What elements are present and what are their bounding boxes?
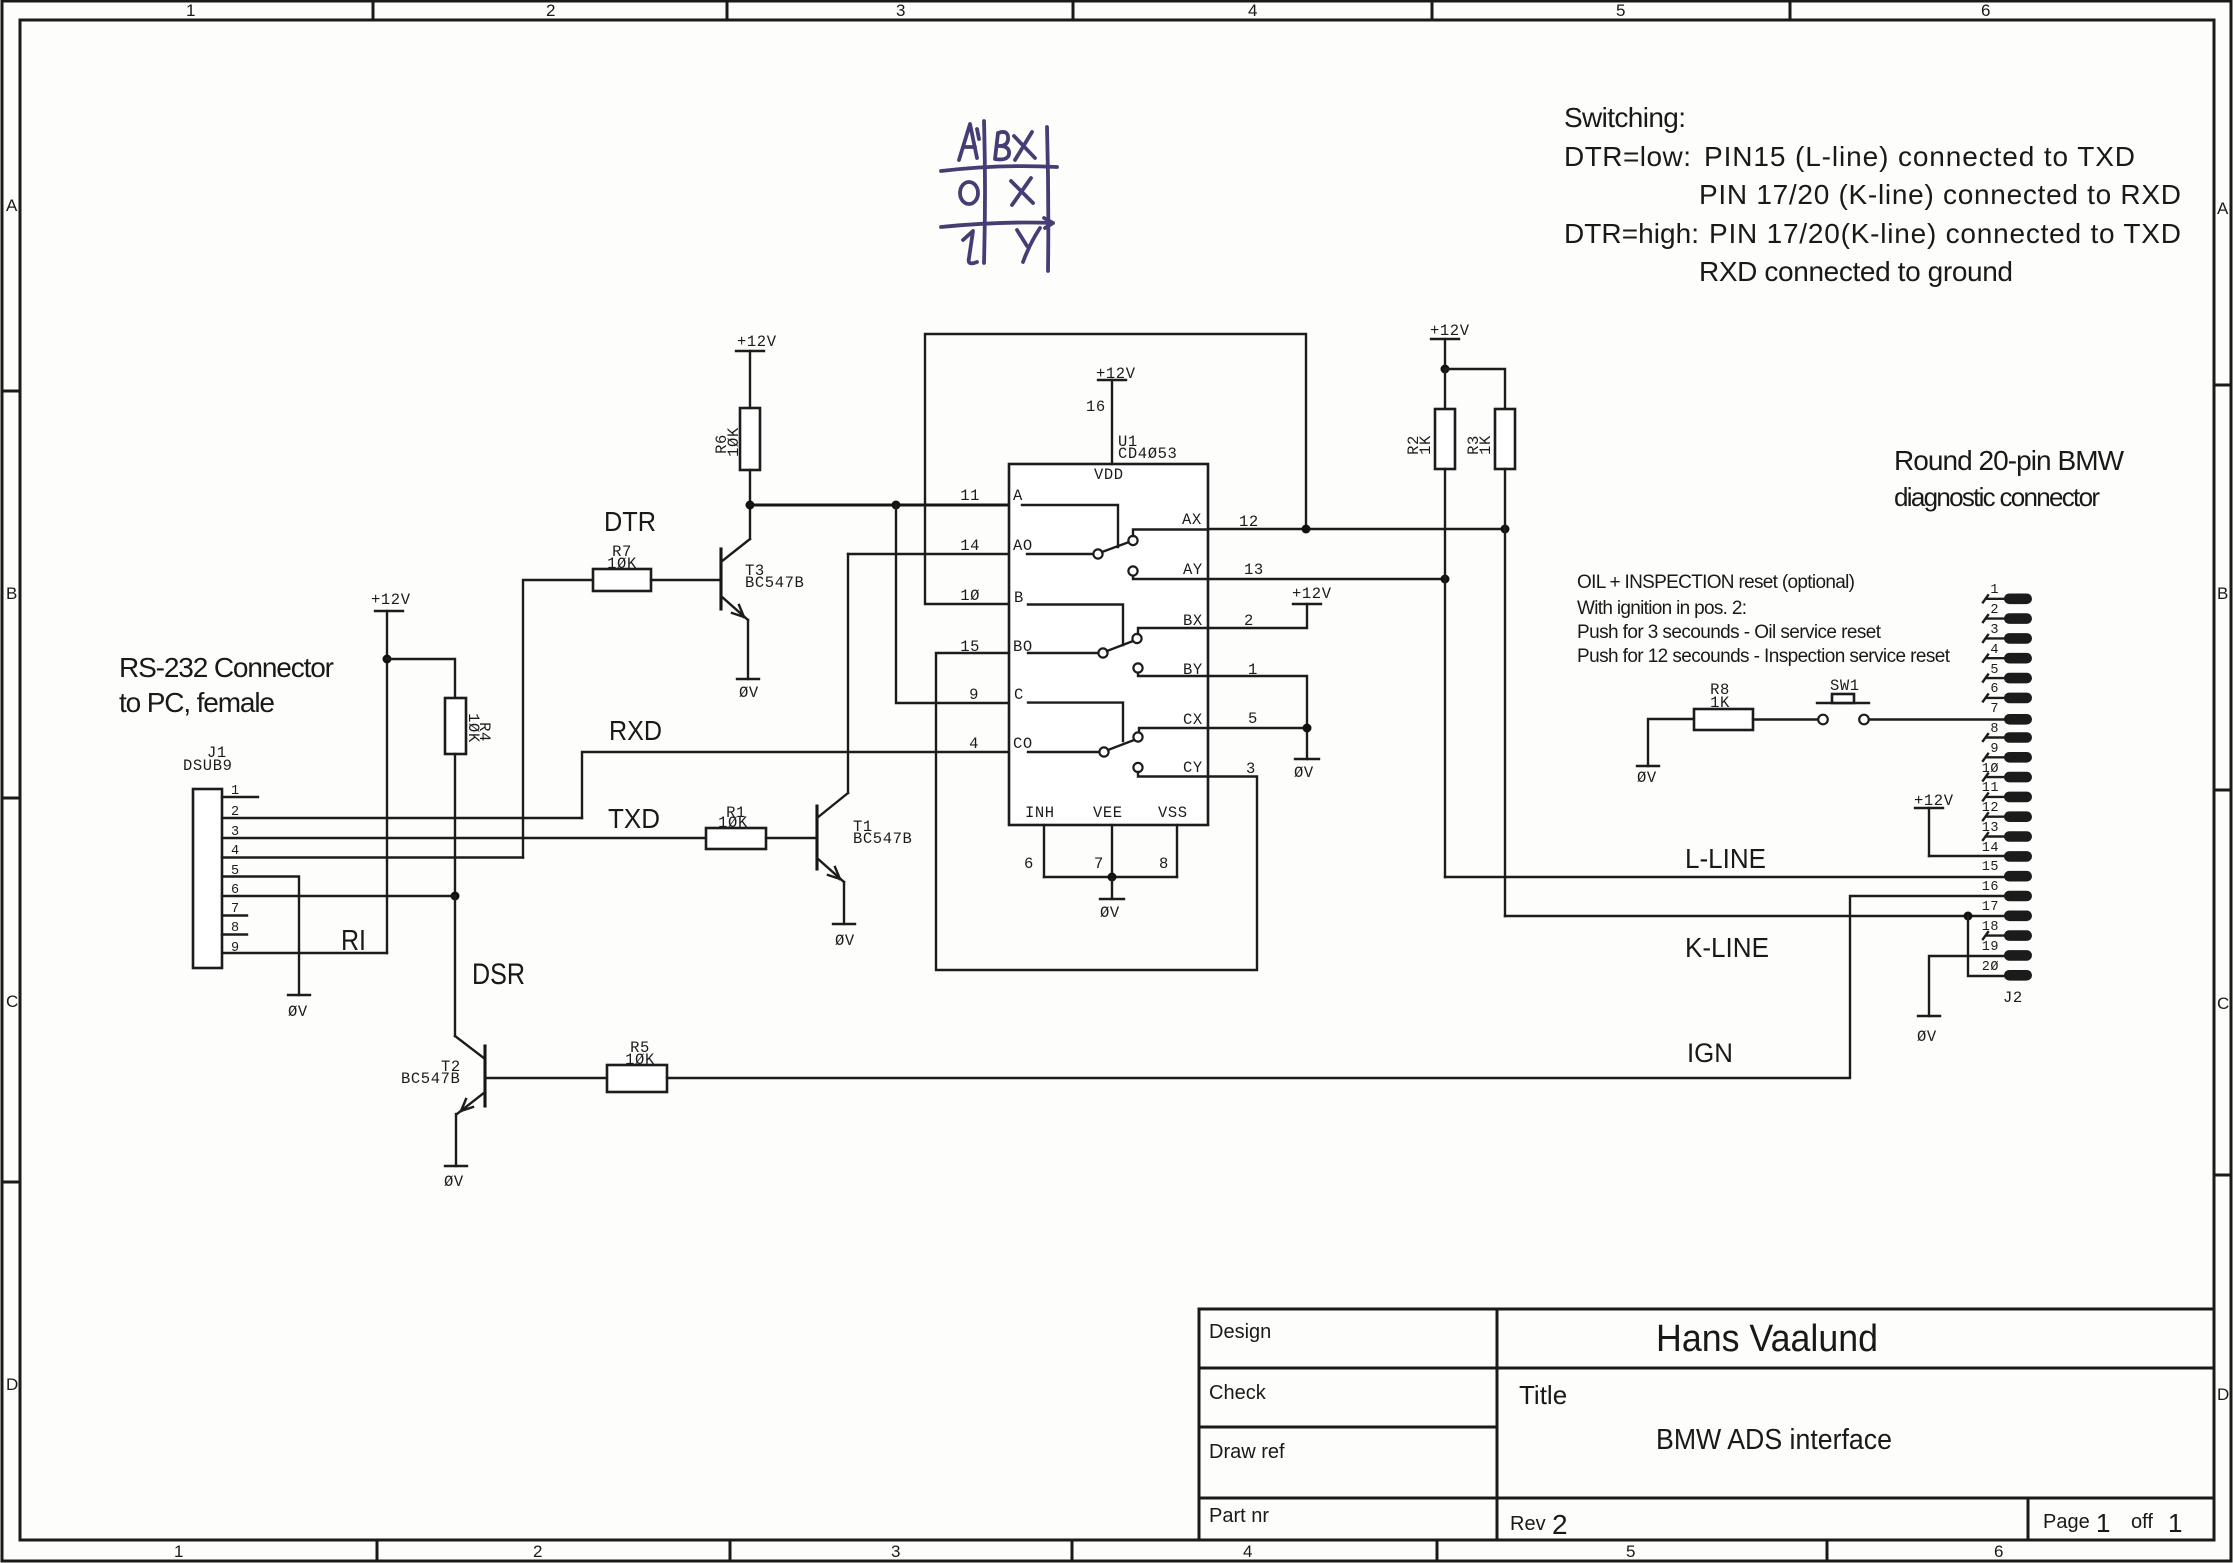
J2 pad 9 bbox=[2004, 752, 2032, 763]
svg-text:3: 3 bbox=[1990, 623, 1999, 638]
svg-text:13: 13 bbox=[1982, 821, 1999, 836]
svg-text:19: 19 bbox=[1982, 940, 1999, 955]
svg-text:Switching:: Switching: bbox=[1564, 102, 1686, 133]
wire +12V to J2 pin14 bbox=[1929, 855, 2004, 857]
resistor R4 10K bbox=[445, 698, 493, 754]
power symbol +12V at BX bbox=[1292, 585, 1332, 604]
bottom margin tick 4/5 bbox=[1436, 1540, 1439, 1561]
svg-text:9: 9 bbox=[231, 941, 240, 956]
power symbol +12V rail left bbox=[371, 591, 411, 953]
svg-text:16: 16 bbox=[1086, 398, 1106, 416]
svg-text:DTR=high:: DTR=high: bbox=[1564, 218, 1699, 249]
node junction AX/feedback bbox=[1302, 525, 1311, 534]
left margin tick B/C bbox=[2, 797, 20, 800]
wire T1 collector to IC pin 14 bbox=[848, 553, 1009, 555]
svg-text:1K: 1K bbox=[1710, 694, 1730, 712]
svg-text:3: 3 bbox=[891, 1542, 900, 1561]
left margin tick C/D bbox=[2, 1181, 20, 1184]
svg-text:1Ø: 1Ø bbox=[1982, 762, 1999, 777]
wire +12V to R2 and R3 tops bbox=[1445, 369, 1505, 409]
right margin tick C/D bbox=[2214, 1174, 2231, 1177]
svg-text:1ØK: 1ØK bbox=[464, 713, 482, 743]
svg-text:Page: Page bbox=[2043, 1511, 2090, 1533]
J1 pin 4 wire (DTR) bbox=[222, 856, 523, 858]
svg-text:BC547B: BC547B bbox=[401, 1070, 460, 1088]
svg-text:VSS: VSS bbox=[1158, 804, 1188, 822]
op-amp U1 CD4053 body bbox=[1009, 464, 1208, 825]
svg-text:5: 5 bbox=[231, 864, 240, 879]
svg-text:SW1: SW1 bbox=[1830, 677, 1860, 695]
title block page divider bbox=[2027, 1498, 2030, 1540]
resistor R7 10K bbox=[593, 543, 651, 591]
svg-text:CO: CO bbox=[1013, 735, 1033, 753]
wire DSR node down to T2 collector bbox=[454, 896, 456, 1036]
svg-text:4: 4 bbox=[231, 844, 240, 859]
U1 bottom pin numbers bbox=[1024, 855, 1169, 873]
power symbol +12V at J2 pin14 bbox=[1914, 792, 1954, 856]
svg-text:1ØK: 1ØK bbox=[607, 555, 637, 573]
ground symbol VEE bbox=[1100, 898, 1124, 900]
wire +12V rail vertical bbox=[386, 611, 388, 953]
bottom margin tick 5/6 bbox=[1826, 1540, 1829, 1561]
svg-text:DTR: DTR bbox=[604, 506, 656, 537]
svg-text:9: 9 bbox=[1990, 742, 1999, 757]
right row letters bbox=[2217, 199, 2229, 1404]
svg-text:C: C bbox=[2217, 994, 2229, 1013]
svg-text:IGN: IGN bbox=[1687, 1038, 1733, 1068]
svg-text:A: A bbox=[6, 196, 18, 215]
U1 internal common BO with switch to BX bbox=[1028, 652, 1098, 654]
power symbol +12V VDD pin16 bbox=[1086, 365, 1136, 464]
wire bottom pin bus bbox=[1044, 876, 1177, 878]
U1 internal labels bbox=[1013, 466, 1203, 822]
J2 pad 4 bbox=[2004, 653, 2032, 664]
U1 internal common AO with switch to AX bbox=[1027, 553, 1093, 555]
svg-text:3: 3 bbox=[231, 825, 240, 840]
J2 pad 1 bbox=[2004, 594, 2032, 605]
power symbol +12V at R6 bbox=[736, 333, 777, 408]
wire CY pin 3 loop to BO pin 15 bbox=[936, 653, 1257, 970]
svg-text:2Ø: 2Ø bbox=[1982, 960, 1999, 975]
svg-text:1: 1 bbox=[186, 1, 195, 20]
hand digit 1 bbox=[963, 231, 977, 263]
J1 pin 1 stub bbox=[222, 796, 258, 798]
ground symbol R8 left bbox=[1637, 765, 1659, 767]
svg-text:8: 8 bbox=[231, 921, 240, 936]
J2 pad 5 bbox=[2004, 673, 2032, 684]
svg-text:ØV: ØV bbox=[1917, 1028, 1937, 1046]
wire BY pin 1 down to CX node bbox=[1208, 676, 1307, 728]
svg-text:VEE: VEE bbox=[1093, 804, 1123, 822]
svg-text:13: 13 bbox=[1244, 561, 1264, 579]
wire T2 base to R5 bbox=[485, 1077, 607, 1079]
resistor R6 10K bbox=[713, 408, 760, 470]
svg-text:16: 16 bbox=[1982, 880, 1999, 895]
svg-text:RI: RI bbox=[341, 925, 366, 957]
rs-232 note text bbox=[119, 652, 334, 718]
top margin tick 3/4 bbox=[1072, 1, 1075, 20]
svg-text:15: 15 bbox=[1982, 860, 1999, 875]
svg-text:RXD connected to ground: RXD connected to ground bbox=[1699, 256, 2013, 287]
svg-text:PIN15 (L-line) connected to TX: PIN15 (L-line) connected to TXD bbox=[1704, 141, 2135, 172]
svg-text:Title: Title bbox=[1519, 1380, 1567, 1410]
svg-text:2: 2 bbox=[546, 1, 555, 20]
U1 switch contact BY bbox=[1133, 663, 1142, 672]
svg-text:6: 6 bbox=[231, 883, 240, 898]
wire R7 to T3 base bbox=[651, 579, 721, 581]
svg-text:ØV: ØV bbox=[444, 1173, 464, 1191]
svg-text:Part nr: Part nr bbox=[1209, 1505, 1269, 1527]
svg-text:INH: INH bbox=[1025, 804, 1055, 822]
svg-text:BC547B: BC547B bbox=[853, 830, 912, 848]
svg-text:1ØK: 1ØK bbox=[625, 1051, 655, 1069]
node junction +12V/R4 bbox=[383, 655, 392, 664]
svg-text:D: D bbox=[6, 1375, 18, 1394]
svg-text:4: 4 bbox=[1248, 1, 1257, 20]
J2 pad 7 bbox=[2004, 714, 2032, 725]
oil inspection note text bbox=[1577, 572, 1951, 667]
bottom margin tick 3/4 bbox=[1071, 1540, 1074, 1561]
hand table horizontal line 2 with arrow bbox=[941, 218, 1053, 228]
switching note text bbox=[1564, 102, 2181, 287]
svg-text:DSUB9: DSUB9 bbox=[183, 757, 233, 775]
svg-text:to PC, female: to PC, female bbox=[119, 687, 275, 718]
wire DTR vertical pin4 up to R7 bbox=[523, 580, 593, 858]
svg-text:17: 17 bbox=[1982, 900, 1999, 915]
svg-text:L-LINE: L-LINE bbox=[1685, 843, 1766, 874]
svg-text:D: D bbox=[2217, 1385, 2229, 1404]
svg-text:1Ø: 1Ø bbox=[960, 587, 980, 605]
U1 switch contact AY bbox=[1128, 566, 1137, 575]
svg-text:B: B bbox=[1014, 589, 1024, 607]
svg-text:2: 2 bbox=[533, 1542, 542, 1561]
svg-text:1: 1 bbox=[2168, 1508, 2182, 1538]
svg-text:off: off bbox=[2131, 1511, 2153, 1533]
wire AY pin 13 to R2 bbox=[1208, 578, 1445, 580]
svg-text:Hans Vaalund: Hans Vaalund bbox=[1656, 1318, 1878, 1360]
svg-text:ØV: ØV bbox=[1294, 764, 1314, 782]
J1 pin 8 stub bbox=[222, 933, 247, 935]
ground symbol pin5 bbox=[288, 994, 310, 996]
J1 pin 6 wire (DSR) bbox=[222, 895, 455, 897]
J2 pad 2 bbox=[2004, 613, 2032, 624]
wire feedback loop IC pin 10 B to AX node bbox=[925, 334, 1306, 604]
svg-text:DSR: DSR bbox=[472, 958, 525, 991]
svg-text:11: 11 bbox=[1982, 781, 1999, 796]
hand letters BX bbox=[995, 132, 1035, 160]
svg-text:1ØK: 1ØK bbox=[718, 814, 748, 832]
svg-text:9: 9 bbox=[969, 686, 979, 704]
J2 pad 17 bbox=[2004, 911, 2032, 922]
bottom column numbers bbox=[174, 1542, 2003, 1561]
svg-text:1K: 1K bbox=[1417, 435, 1435, 455]
hand letter Y bbox=[1017, 228, 1040, 262]
svg-text:DTR=low:: DTR=low: bbox=[1564, 141, 1691, 172]
svg-text:AY: AY bbox=[1183, 561, 1203, 579]
svg-text:Check: Check bbox=[1209, 1382, 1267, 1404]
svg-text:3: 3 bbox=[896, 1, 905, 20]
wire VEE pin7 stub bbox=[1111, 825, 1113, 877]
wire J2 pin19 to ground bbox=[1929, 956, 2004, 1016]
svg-text:CY: CY bbox=[1183, 759, 1203, 777]
svg-text:Draw ref: Draw ref bbox=[1209, 1441, 1285, 1463]
svg-text:2: 2 bbox=[231, 805, 240, 820]
right margin tick A/B bbox=[2214, 384, 2231, 387]
node junction K-LINE branch bbox=[1964, 912, 1973, 921]
svg-text:ØV: ØV bbox=[288, 1003, 308, 1021]
svg-text:Push for 12 secounds - Inspect: Push for 12 secounds - Inspection servic… bbox=[1577, 646, 1951, 667]
wire K-LINE branch to J2 pin20 bbox=[1968, 916, 2004, 976]
resistor R5 10K bbox=[607, 1039, 667, 1092]
wire AX pin 12 to R3 bbox=[1208, 528, 1505, 530]
title block vertical divider bbox=[1496, 1309, 1499, 1540]
svg-text:Round 20-pin BMW: Round 20-pin BMW bbox=[1894, 445, 2125, 476]
node junction AX/R3 bbox=[1501, 525, 1510, 534]
J2 pad 18 bbox=[2004, 930, 2032, 941]
svg-text:+12V: +12V bbox=[1430, 322, 1470, 340]
left row letters bbox=[6, 196, 18, 1394]
svg-text:K-LINE: K-LINE bbox=[1685, 932, 1769, 963]
svg-text:5: 5 bbox=[1626, 1542, 1635, 1561]
svg-text:ØV: ØV bbox=[739, 684, 759, 702]
svg-text:+12V: +12V bbox=[737, 333, 777, 351]
svg-text:1: 1 bbox=[231, 784, 240, 799]
wire SW1 to J2 pin7 bbox=[1869, 718, 2004, 720]
svg-text:1: 1 bbox=[174, 1542, 183, 1561]
svg-text:18: 18 bbox=[1982, 920, 1999, 935]
wire DTR node to IC pin 11 bbox=[750, 503, 1009, 506]
svg-text:7: 7 bbox=[1990, 702, 1999, 717]
hand table vertical line 2 bbox=[1047, 127, 1048, 271]
node junction DSR bbox=[451, 892, 460, 901]
J2 pad 6 bbox=[2004, 693, 2032, 704]
svg-text:8: 8 bbox=[1990, 722, 1999, 737]
J1 pin 2 wire (RXD to PC) bbox=[222, 817, 582, 819]
ground symbol T3 emitter bbox=[737, 678, 759, 680]
svg-text:2: 2 bbox=[1990, 603, 1999, 618]
wire VEE to ground bbox=[1111, 877, 1113, 899]
U1 right pin numbers bbox=[1239, 513, 1264, 778]
J2 pad 19 bbox=[2004, 950, 2032, 961]
node junction R2/R3 top bbox=[1441, 365, 1450, 374]
wire R2 bottom to L-LINE bbox=[1444, 469, 1446, 877]
svg-text:4: 4 bbox=[969, 735, 979, 753]
wire +12V to R4 top bbox=[387, 659, 455, 698]
U1 internal control line C bbox=[1028, 703, 1123, 741]
title block outline bbox=[1199, 1309, 2214, 1540]
top margin tick 5/6 bbox=[1789, 1, 1792, 20]
node junction AY/R2 bbox=[1441, 575, 1450, 584]
svg-text:With ignition in pos. 2:: With ignition in pos. 2: bbox=[1577, 598, 1747, 619]
J2 pad 12 bbox=[2004, 811, 2032, 822]
svg-text:C: C bbox=[1014, 686, 1024, 704]
svg-text:11: 11 bbox=[960, 487, 980, 505]
svg-text:BC547B: BC547B bbox=[745, 574, 804, 592]
resistor R3 1K bbox=[1465, 409, 1515, 469]
svg-text:7: 7 bbox=[1094, 855, 1104, 873]
wire DTR branch to IC pin 9 bbox=[896, 505, 1009, 703]
bottom margin tick 2/3 bbox=[729, 1540, 732, 1561]
transistor T1 BC547B bbox=[817, 554, 912, 924]
svg-text:RXD: RXD bbox=[609, 715, 662, 746]
svg-text:TXD: TXD bbox=[608, 803, 660, 834]
svg-text:C: C bbox=[6, 992, 18, 1011]
power symbol +12V above R2 R3 bbox=[1430, 322, 1470, 369]
right margin tick B/C bbox=[2214, 789, 2231, 792]
U1 internal control line B bbox=[1028, 605, 1123, 646]
top margin tick 1/2 bbox=[372, 1, 375, 20]
resistor R2 1K bbox=[1405, 409, 1455, 469]
wire R1 to T1 base bbox=[766, 837, 817, 839]
J2 pad 14 bbox=[2004, 851, 2032, 862]
J2 pad 15 bbox=[2004, 871, 2032, 882]
svg-text:CD4Ø53: CD4Ø53 bbox=[1118, 445, 1177, 463]
resistor R8 1K bbox=[1694, 681, 1753, 730]
top margin tick 2/3 bbox=[726, 1, 729, 20]
svg-text:4: 4 bbox=[1243, 1542, 1252, 1561]
svg-text:PIN 17/20(K-line) connected to: PIN 17/20(K-line) connected to TXD bbox=[1709, 218, 2181, 249]
hand letter A bbox=[959, 124, 979, 160]
bottom margin tick 1/2 bbox=[376, 1540, 379, 1561]
hand-drawn truth table (blue ink) bbox=[941, 121, 1057, 271]
node junction BY/CX bbox=[1303, 724, 1312, 733]
hand table vertical line 1 bbox=[984, 121, 985, 263]
node junction T3 collector bbox=[746, 501, 755, 510]
title block row line draw ref bbox=[1199, 1497, 2214, 1500]
J1 pin 5 wire to ground bbox=[222, 877, 299, 996]
svg-text:ØV: ØV bbox=[835, 932, 855, 950]
wire R6 bottom to DTR node bbox=[749, 470, 751, 505]
wire BX pin 2 to +12V bbox=[1208, 604, 1307, 628]
ground symbol J2 pin19 bbox=[1918, 1015, 1940, 1017]
top margin tick 4/5 bbox=[1431, 1, 1434, 20]
svg-text:CX: CX bbox=[1183, 711, 1203, 729]
transistor T3 BC547B bbox=[721, 505, 804, 679]
wire R4 bottom to DSR node bbox=[454, 754, 456, 896]
svg-text:2: 2 bbox=[1552, 1509, 1568, 1540]
svg-text:14: 14 bbox=[1982, 841, 1999, 856]
svg-text:AO: AO bbox=[1013, 537, 1033, 555]
wire R8 to SW1 bbox=[1753, 718, 1818, 720]
svg-text:Push for 3 secounds - Oil serv: Push for 3 secounds - Oil service reset bbox=[1577, 622, 1882, 643]
svg-text:1ØK: 1ØK bbox=[725, 427, 743, 457]
title block row line check (left column) bbox=[1199, 1426, 1497, 1429]
svg-text:AX: AX bbox=[1182, 511, 1202, 529]
wire VSS pin8 stub bbox=[1176, 825, 1178, 877]
wire INH pin6 stub bbox=[1043, 825, 1045, 877]
J2 pad 8 bbox=[2004, 732, 2032, 743]
wire CX pin 5 to ground bbox=[1208, 728, 1307, 759]
hand table horizontal line 1 bbox=[941, 166, 1057, 171]
svg-text:6: 6 bbox=[1994, 1542, 2003, 1561]
wire R3 bottom to K-LINE bbox=[1504, 469, 1506, 916]
svg-text:VDD: VDD bbox=[1094, 466, 1124, 484]
switch SW1 pushbutton bbox=[1817, 677, 1869, 724]
title block row line design bbox=[1199, 1367, 2214, 1370]
svg-text:+12V: +12V bbox=[371, 591, 411, 609]
svg-text:diagnostic connector: diagnostic connector bbox=[1894, 482, 2100, 512]
svg-text:5: 5 bbox=[1616, 1, 1625, 20]
node junction VEE ground bbox=[1108, 873, 1117, 882]
wire RI pin9 to +12V rail bbox=[222, 952, 387, 954]
svg-text:A: A bbox=[1013, 487, 1023, 505]
ground symbol T1 emitter bbox=[833, 923, 855, 925]
U1 internal control line A bbox=[1022, 505, 1118, 547]
ground symbol CX bbox=[1295, 758, 1319, 760]
svg-text:A: A bbox=[2217, 199, 2229, 218]
svg-text:6: 6 bbox=[1024, 855, 1034, 873]
svg-text:+12V: +12V bbox=[1292, 585, 1332, 603]
svg-text:RS-232 Connector: RS-232 Connector bbox=[119, 652, 334, 683]
wire IGN long run to J2 pin16 bbox=[667, 896, 2004, 1078]
resistor R1 10K bbox=[706, 804, 766, 849]
svg-text:B: B bbox=[2217, 584, 2228, 603]
svg-text:6: 6 bbox=[1990, 682, 1999, 697]
svg-text:ØV: ØV bbox=[1637, 769, 1657, 787]
svg-text:12: 12 bbox=[1982, 801, 1999, 816]
hand digit 0 bbox=[960, 182, 978, 204]
J2 pad 16 bbox=[2004, 891, 2032, 902]
svg-text:1K: 1K bbox=[1477, 435, 1495, 455]
J2 pad 10 bbox=[2004, 772, 2032, 783]
svg-text:Design: Design bbox=[1209, 1321, 1271, 1343]
J2 pad 20 bbox=[2004, 970, 2032, 981]
wire RXD pin2 to IC pin 4 bbox=[582, 752, 1009, 818]
svg-text:4: 4 bbox=[1990, 643, 1999, 658]
svg-text:7: 7 bbox=[231, 902, 240, 917]
transistor T2 BC547B (mirrored) bbox=[401, 1036, 485, 1166]
U1 left pin numbers bbox=[960, 487, 980, 753]
wire L-LINE to J2 pin15 bbox=[1445, 876, 2004, 878]
svg-text:1: 1 bbox=[1990, 583, 1999, 598]
svg-text:5: 5 bbox=[1990, 663, 1999, 678]
svg-text:PIN 17/20 (K-line) connected t: PIN 17/20 (K-line) connected to RXD bbox=[1699, 179, 2181, 210]
top column numbers bbox=[186, 1, 1990, 20]
svg-text:B: B bbox=[6, 584, 17, 603]
J2 pad 11 bbox=[2004, 792, 2032, 803]
round 20-pin note text bbox=[1894, 445, 2125, 512]
svg-text:14: 14 bbox=[960, 537, 980, 555]
wire ground to R8 bbox=[1648, 719, 1694, 766]
svg-text:OIL + INSPECTION reset (option: OIL + INSPECTION reset (optional) bbox=[1577, 572, 1855, 593]
left margin tick A/B bbox=[2, 390, 20, 393]
J2 pad 13 bbox=[2004, 831, 2032, 842]
svg-text:BMW ADS interface: BMW ADS interface bbox=[1656, 1424, 1892, 1456]
U1 switch contact CY bbox=[1133, 763, 1142, 772]
svg-text:J2: J2 bbox=[2003, 989, 2023, 1007]
svg-text:Rev: Rev bbox=[1510, 1513, 1546, 1535]
U1 internal common CO with switch to CX bbox=[1028, 751, 1099, 753]
connector J2 pads bbox=[1982, 583, 2032, 981]
ground symbol T2 emitter bbox=[445, 1165, 467, 1167]
J1 pin 7 stub bbox=[222, 914, 247, 916]
connector J1 DSUB9 body bbox=[193, 789, 222, 968]
svg-text:6: 6 bbox=[1981, 1, 1990, 20]
hand letter X row0 bbox=[1011, 178, 1033, 205]
svg-text:5: 5 bbox=[1248, 710, 1258, 728]
svg-text:ØV: ØV bbox=[1100, 904, 1120, 922]
J1 pin 3 wire (TXD) bbox=[222, 837, 706, 839]
svg-text:1: 1 bbox=[2096, 1508, 2110, 1538]
J2 pad 3 bbox=[2004, 633, 2032, 644]
node junction DTR branch bbox=[892, 501, 901, 510]
wire K-LINE to J2 pin17 bbox=[1505, 915, 2004, 917]
svg-text:8: 8 bbox=[1159, 855, 1169, 873]
